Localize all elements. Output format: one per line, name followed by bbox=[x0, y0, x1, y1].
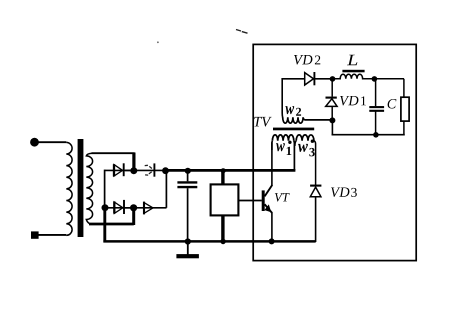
input terminal top (dot) bbox=[30, 138, 39, 147]
bridge node DC+ (dot) bbox=[162, 167, 169, 174]
transformer T primary winding bbox=[66, 142, 72, 235]
diode bridge top row wire bbox=[105, 169, 131, 171]
node: VD1 anode (dot) bbox=[329, 117, 335, 123]
wire: secondary top lead bbox=[92, 152, 135, 154]
transformer TV winding W2 bbox=[283, 117, 303, 123]
bridge node AC2 (dot) bbox=[130, 204, 137, 211]
wire: W3 right tail down to VD3 bbox=[314, 141, 316, 185]
wire: thick drop to bridge AC1 bbox=[132, 153, 135, 170]
wire: W1 left tail bbox=[271, 141, 274, 150]
bridge node AC1 (dot) bbox=[130, 167, 137, 174]
label C bbox=[388, 99, 397, 109]
diode VD1 bbox=[326, 79, 338, 121]
output capacitor C bbox=[369, 79, 384, 135]
wire: secondary bottom lead bbox=[89, 223, 134, 226]
converter enclosure box bbox=[253, 44, 416, 260]
artifact stroke top bbox=[236, 30, 248, 34]
diode VD2 bbox=[305, 72, 315, 85]
transistor VT base bar bbox=[262, 190, 265, 211]
label w3 bbox=[298, 144, 315, 156]
label VD2 bbox=[294, 55, 320, 65]
transistor VT emitter arrow bbox=[264, 204, 271, 212]
wire: emitter down to rail bbox=[271, 212, 273, 241]
transformer TV winding W1 bbox=[272, 135, 293, 141]
label VD1 bbox=[340, 96, 366, 106]
wire: node B to load bbox=[374, 78, 404, 80]
transformer TV core bbox=[273, 128, 314, 131]
load resistor bbox=[401, 97, 409, 121]
wire: VD1 anode down bbox=[331, 120, 333, 135]
label L bbox=[347, 55, 357, 65]
DC- bottom rail bbox=[103, 240, 315, 243]
wire: W1 right tail to rail bbox=[293, 141, 296, 171]
ground lead bbox=[187, 242, 189, 255]
wire: top input lead bbox=[38, 141, 66, 143]
ground symbol bbox=[176, 254, 199, 258]
label w1 bbox=[276, 143, 291, 155]
transformer T core bbox=[78, 139, 84, 237]
node: control box top feed (dot) bbox=[221, 168, 226, 173]
diode bridge bottom row wire bbox=[105, 207, 131, 209]
inductor L core bar bbox=[342, 70, 364, 73]
transistor VT collector stroke bbox=[265, 185, 273, 196]
wire: bridge right return bbox=[165, 170, 167, 208]
node: W3 polarity dot bbox=[311, 140, 314, 143]
output ground rail bbox=[332, 134, 405, 136]
wire: collector up to W1 bbox=[271, 143, 273, 186]
control box bbox=[211, 184, 239, 215]
wire: VD2 cathode to node A bbox=[314, 78, 332, 80]
control box bottom feed bbox=[221, 215, 224, 241]
wire: thick rise to bridge AC2 bbox=[132, 208, 135, 225]
DC+ top rail bbox=[164, 169, 295, 172]
transistor VT emitter stroke bbox=[265, 204, 272, 213]
wire: W2 right lead bbox=[303, 118, 330, 120]
bridge diode bottom-right bbox=[144, 202, 153, 215]
node: output cap bottom (dot) bbox=[373, 132, 379, 138]
node A (dot) bbox=[330, 76, 336, 82]
node: emitter/rail (dot) bbox=[269, 238, 275, 244]
bridge node DC- (dot) bbox=[102, 204, 109, 211]
artifact dot bbox=[157, 41, 159, 43]
wire: load top lead bbox=[403, 79, 405, 98]
bridge diode bottom-left bbox=[114, 200, 124, 214]
bridge left rail wire bbox=[104, 170, 106, 208]
filter capacitor C1 bbox=[177, 171, 197, 242]
node: filter cap bottom (dot) bbox=[185, 238, 191, 244]
label VT bbox=[275, 193, 290, 201]
label TV bbox=[254, 117, 271, 127]
diode VD3 bbox=[310, 186, 321, 242]
wire: W3 left tail bbox=[295, 141, 296, 146]
wire: box output to base bbox=[238, 200, 261, 202]
node: box bottom feed (dot) bbox=[220, 239, 225, 244]
label w2 bbox=[285, 106, 301, 116]
transformer T secondary winding bbox=[86, 153, 92, 224]
label VD3 bbox=[331, 187, 357, 197]
control box top feed bbox=[221, 170, 224, 185]
wire: load bottom lead bbox=[403, 121, 405, 135]
transformer TV winding W3 bbox=[296, 135, 314, 141]
node: filter cap top (dot) bbox=[185, 168, 191, 174]
bridge diode top-right (faded) bbox=[145, 165, 152, 175]
input terminal bottom (square) bbox=[31, 231, 39, 238]
wire: bottom input lead bbox=[38, 234, 66, 236]
bridge left rail thick drop bbox=[103, 208, 106, 243]
node B (dot) bbox=[372, 76, 378, 82]
wire: W2 left vertical bbox=[282, 79, 305, 118]
node: W1 polarity dot bbox=[288, 141, 291, 144]
inductor L bbox=[333, 74, 375, 79]
bridge diode top-left bbox=[114, 163, 124, 176]
